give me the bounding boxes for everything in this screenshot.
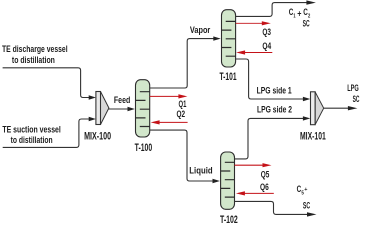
wire: LPG SC product from MIX-101 xyxy=(324,106,358,110)
svg-text:T-102: T-102 xyxy=(220,214,238,226)
stream label C5+ / SC xyxy=(297,184,311,210)
svg-text:Q4: Q4 xyxy=(262,41,271,51)
svg-text:Q1: Q1 xyxy=(179,99,187,109)
svg-text:Liquid: Liquid xyxy=(189,165,212,175)
svg-text:to distillation: to distillation xyxy=(12,55,55,65)
svg-text:T-101: T-101 xyxy=(219,71,236,83)
stream label: TE discharge vessel to distillation xyxy=(2,44,68,65)
energy stream Q5 (out of T-102) xyxy=(235,163,272,167)
stream label: TE suction vessel to distillation xyxy=(2,125,61,145)
energy stream Q1 (out of T-100) xyxy=(150,94,188,98)
svg-text:MIX-100: MIX-100 xyxy=(84,131,111,143)
svg-text:Feed: Feed xyxy=(114,95,130,105)
svg-text:TE discharge vessel: TE discharge vessel xyxy=(2,44,68,54)
svg-text:Q5: Q5 xyxy=(261,170,270,180)
svg-text:LPG side 1: LPG side 1 xyxy=(257,85,292,95)
svg-text:Q3: Q3 xyxy=(262,27,271,37)
wire: C5+ bottoms product from T-102 xyxy=(235,201,317,216)
wire: C1+C2 overhead product from T-101 xyxy=(236,0,316,16)
column T-100 xyxy=(136,80,150,137)
svg-text:T-100: T-100 xyxy=(135,142,153,154)
column T-101 xyxy=(222,10,236,67)
mixer MIX-100 xyxy=(96,92,109,125)
svg-text:Vapor: Vapor xyxy=(190,25,211,35)
svg-text:SC: SC xyxy=(303,19,310,29)
stream label C1 + C2 / SC xyxy=(289,7,311,29)
wire: LPG side 2 (T-102 top to MIX-101) xyxy=(235,116,311,159)
energy stream Q3 (out of T-101) xyxy=(236,21,271,25)
svg-text:Q2: Q2 xyxy=(177,109,186,119)
svg-text:to distillation: to distillation xyxy=(11,135,53,145)
energy stream Q4 (into T-101) xyxy=(236,50,272,54)
energy stream Q6 (into T-102) xyxy=(236,191,274,195)
svg-text:SC: SC xyxy=(303,200,311,210)
wire: Feed stream (MIX-100 to T-100) xyxy=(108,107,135,111)
wire: TE suction vessel stream into MIX-100 xyxy=(3,117,96,148)
wire: Liquid stream (T-100 bottom to T-102) xyxy=(150,130,220,183)
wire: LPG side 1 (T-101 bottom to MIX-101) xyxy=(236,59,310,101)
svg-text:Q6: Q6 xyxy=(260,182,269,192)
column T-102 xyxy=(221,152,235,209)
svg-text:MIX-101: MIX-101 xyxy=(300,131,326,143)
energy stream Q2 (into T-100) xyxy=(151,120,188,124)
svg-text:TE suction vessel: TE suction vessel xyxy=(2,125,61,135)
svg-text:SC: SC xyxy=(353,94,360,104)
svg-text:LPG side 2: LPG side 2 xyxy=(257,105,292,115)
svg-text:LPG: LPG xyxy=(347,83,359,93)
wire: Vapor stream (T-100 top to T-101) xyxy=(150,36,221,88)
stream label LPG / SC xyxy=(347,83,360,104)
mixer MIX-101 xyxy=(311,92,324,125)
wire: TE discharge vessel stream into MIX-100 xyxy=(3,68,96,100)
